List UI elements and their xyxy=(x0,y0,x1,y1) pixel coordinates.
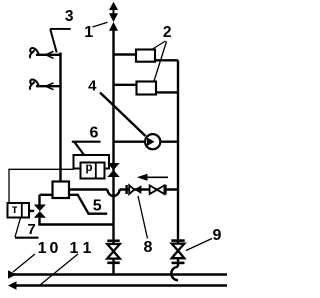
svg-text:11: 11 xyxy=(70,240,97,257)
svg-text:9: 9 xyxy=(212,227,221,244)
svg-text:10: 10 xyxy=(38,240,62,257)
svg-text:т: т xyxy=(12,204,18,216)
svg-text:1: 1 xyxy=(84,24,93,41)
svg-text:8: 8 xyxy=(144,239,153,256)
svg-text:5: 5 xyxy=(93,198,102,215)
svg-text:p: p xyxy=(85,162,92,174)
svg-text:7: 7 xyxy=(27,221,35,238)
svg-text:2: 2 xyxy=(163,24,172,41)
svg-text:4: 4 xyxy=(88,77,97,94)
svg-text:6: 6 xyxy=(89,125,98,142)
svg-text:3: 3 xyxy=(65,8,74,25)
